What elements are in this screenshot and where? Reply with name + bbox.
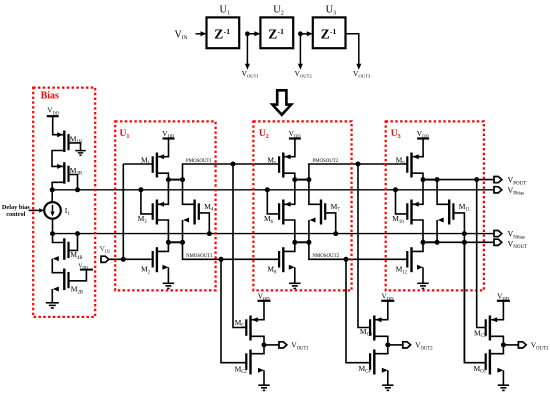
wire MC3 drain to output node	[374, 336, 388, 345]
U1 dashed box	[115, 121, 215, 290]
node dot P left (stage 9)	[421, 177, 426, 182]
node dot buffer3 P tap	[474, 177, 479, 182]
transistor M12 gate bar	[406, 251, 408, 268]
node dot M10 gate on PBias	[393, 187, 398, 192]
node dot M4 gate on NBias	[207, 231, 212, 236]
wire VIN arrow into U1	[196, 33, 203, 35]
wire M2B gate to VDD	[69, 270, 87, 281]
transistor M9 gate bar	[406, 156, 408, 173]
node dot P right (stage 5)	[306, 177, 311, 182]
wire arrow into U2	[247, 33, 256, 35]
wire M6 gate to PBias rail	[267, 190, 279, 214]
power VDD bar (M2B gate)	[80, 269, 93, 271]
wire M12 source to ground	[417, 265, 423, 270]
transistor MC2 channel	[249, 350, 251, 375]
port symbol VOUT2	[403, 342, 411, 348]
node dot M3 gate on PBias	[138, 187, 143, 192]
node dot M7 gate on NBias	[333, 231, 338, 236]
transistor M4 gate bar	[198, 203, 200, 220]
transistor M3B channel	[63, 162, 65, 184]
wire node to M6 source	[284, 180, 295, 205]
power VDD bar (M1)	[163, 137, 175, 139]
wire node to M3 source	[158, 180, 169, 205]
wire M3 gate to PBias rail	[141, 190, 153, 214]
wire MC1 drain to output node	[251, 336, 265, 345]
wire buffer VOUT1 N gate vertical	[221, 259, 246, 362]
ground (buffer VOUT3)	[498, 384, 509, 386]
power VDD bar (bias)	[47, 115, 59, 117]
wire M11 source to lower node	[438, 218, 444, 223]
port symbol VOUT3	[518, 342, 526, 348]
svg-text:PMOSOUT1: PMOSOUT1	[186, 159, 212, 164]
port symbol VNbias	[494, 231, 502, 237]
wire M10 drain to lower node	[412, 220, 424, 242]
ground (buffer VOUT2)	[382, 384, 393, 386]
wire VOUT2 drop	[299, 36, 301, 66]
transistor M2 channel	[156, 247, 158, 272]
node segment PMOS drain (stage 5)	[295, 179, 309, 181]
wire M4 source to lower node	[183, 218, 189, 223]
wire buffer VOUT2 P gate vertical	[358, 164, 370, 328]
hollow arrow (block diagram to schematic)	[272, 90, 291, 115]
wire M1 gate lead	[123, 163, 152, 165]
output node dot (VOUT2)	[385, 342, 390, 347]
wire VDD to MC3 source	[376, 301, 388, 320]
transistor M7 gate bar	[324, 203, 326, 220]
transistor MC4 channel	[373, 350, 375, 375]
wire MC5 drain to output node	[490, 336, 504, 345]
Bias dashed box	[33, 88, 95, 317]
wire MC4 source to ground	[382, 368, 388, 373]
port symbol VOUT1	[279, 342, 287, 348]
svg-text:Bias: Bias	[41, 91, 59, 102]
node dot NMOSOUT2 buffer tap	[344, 257, 349, 262]
output node dot (VOUT1)	[262, 342, 267, 347]
wire M4 gate to NBias rail	[199, 213, 210, 234]
ground (M1B gate)	[75, 150, 86, 152]
wire M11 gate to NBias rail and buffer tap vertical	[453, 213, 464, 363]
transistor M11 channel	[448, 200, 450, 225]
node dot N right (stage 1)	[180, 240, 185, 245]
transistor M11 gate bar	[452, 203, 454, 220]
wire PMOSOUT1 rail	[183, 164, 280, 180]
wire U3 N-node to VNOUT port	[437, 241, 494, 243]
power VDD bar (M5)	[289, 137, 301, 139]
svg-text:NMOSOUT1: NMOSOUT1	[186, 254, 213, 259]
wire M7 gate to NBias rail	[325, 213, 336, 234]
wire MC6 source to ground	[497, 368, 503, 373]
wire VDD to M5 source	[285, 139, 295, 157]
transistor M2B channel	[63, 269, 65, 291]
node dot NBias left end	[50, 231, 55, 236]
transistor M5 gate bar	[278, 156, 280, 173]
wire M1 drain to node	[157, 173, 169, 179]
wire MC4 drain to output node	[374, 345, 388, 354]
wire M2 drain to lower node	[157, 242, 169, 251]
transistor M1B channel	[63, 131, 65, 153]
node dot N left (stage 1)	[166, 240, 171, 245]
transistor MC1 channel	[249, 316, 251, 341]
wire NMOSOUT1 rail	[183, 242, 280, 259]
wire M2 source to ground	[162, 265, 168, 270]
transistor M5 channel	[282, 153, 284, 178]
wire MC2 source to ground	[258, 368, 264, 373]
port symbol VNOUT	[494, 239, 502, 245]
wire buffer VOUT3 N gate vertical	[464, 242, 485, 362]
ground (M8)	[289, 282, 300, 284]
wire MC2 drain to output node	[251, 345, 265, 354]
current source I1 arrow	[52, 205, 54, 213]
port symbol VPbias	[494, 187, 502, 193]
ground (bias)	[46, 302, 59, 304]
wire M3B drain down to PBias node	[52, 182, 64, 202]
wire VDD to MC5 source	[491, 301, 503, 320]
node segment NMOS drain (stage 5)	[295, 241, 309, 243]
block U1 (Z^-1)	[207, 17, 240, 48]
transistor MC3 gate bar	[369, 319, 371, 336]
port symbol VIN	[101, 256, 109, 262]
wire M9 drain to node	[412, 173, 424, 179]
wire M8 source to ground	[289, 265, 295, 270]
junction artifact dot on PBias	[122, 188, 125, 191]
transistor M3 channel	[156, 200, 158, 225]
wire VNbias rail (NBias net)	[53, 233, 495, 235]
wire buffer VOUT3 P gate vertical	[477, 180, 486, 328]
wire M3B gate to PBias rail	[69, 175, 78, 190]
node dot PMOSOUT1 buffer tap	[231, 162, 236, 167]
wire U3 P-node to VPOUT port	[437, 179, 494, 181]
wire M10 gate to PBias rail	[396, 190, 408, 214]
transistor M3 gate bar	[152, 203, 154, 220]
wire M4B source to M2B drain	[53, 256, 59, 261]
node dot N right (stage 5)	[306, 240, 311, 245]
node dot P left (stage 1)	[166, 177, 171, 182]
transistor M6 channel	[282, 200, 284, 225]
node dot PBias left end	[50, 187, 55, 192]
wire M6 drain to lower node	[283, 220, 295, 242]
node dot NMOSOUT1 buffer tap	[219, 257, 224, 262]
transistor M2 gate bar	[152, 251, 154, 268]
wire output node to port (VOUT2)	[388, 344, 403, 346]
svg-text:NMOSOUT2: NMOSOUT2	[312, 254, 339, 259]
wire I1 to NBias node	[52, 219, 54, 234]
wire node to M11 drain	[437, 180, 449, 205]
wire arrow into U3	[300, 33, 308, 35]
node segment NMOS drain (stage 1)	[168, 241, 182, 243]
transistor MC5 channel	[489, 316, 491, 341]
transistor M10 gate bar	[406, 203, 408, 220]
transistor M7 channel	[320, 200, 322, 225]
transistor M10 channel	[410, 200, 412, 225]
node dot P right (stage 1)	[180, 177, 185, 182]
wire delay control arrow	[29, 209, 41, 211]
transistor M4B gate bar	[67, 242, 69, 258]
power VDD bar (buffer VOUT3)	[497, 300, 510, 302]
transistor M8 gate bar	[278, 251, 280, 268]
svg-text:control: control	[6, 211, 25, 218]
node dot after U1	[245, 31, 250, 36]
port symbol VPOUT	[494, 177, 502, 183]
transistor MC6 gate bar	[485, 353, 487, 370]
node dot after U2	[298, 31, 303, 36]
node dot M11 gate on NBias	[462, 231, 467, 236]
transistor M9 channel	[410, 153, 412, 178]
wire VPbias rail (PBias net)	[52, 189, 494, 191]
wire M7 source to lower node	[310, 218, 316, 223]
wire NBias node down to M4B drain	[53, 234, 65, 243]
transistor MC2 gate bar	[245, 353, 247, 370]
transistor M1 gate bar	[152, 156, 154, 173]
node dot M4B gate on NBias	[75, 231, 80, 236]
svg-text:Delay bias: Delay bias	[2, 204, 30, 211]
transistor M6 gate bar	[278, 203, 280, 220]
transistor M4 channel	[193, 200, 195, 225]
wire VDD to MC1 source	[252, 301, 264, 320]
wire NMOSOUT2 rail	[309, 242, 408, 259]
wire U1 input vertical	[122, 164, 124, 259]
wire buffer VOUT1 P gate vertical	[233, 164, 246, 328]
node dot N left (stage 5)	[292, 240, 297, 245]
wire output node to port (VOUT3)	[503, 344, 518, 346]
node dot buffer3 tap on VNOUT rail	[462, 240, 467, 245]
transistor M3B gate bar	[67, 166, 69, 182]
node segment PMOS drain (stage 9)	[423, 179, 437, 181]
wire M1B gate to ground	[69, 143, 81, 151]
transistor M1B gate bar	[67, 134, 69, 150]
transistor MC5 gate bar	[485, 319, 487, 336]
wire VDD to M9 source	[413, 139, 423, 157]
wire M5 drain to node	[283, 173, 295, 179]
wire VOUT1 drop	[246, 36, 248, 66]
wire VDD to M1 source	[158, 139, 168, 157]
wire M4B gate to NBias rail	[69, 234, 78, 251]
wire M1B drain to M3B source	[52, 151, 64, 167]
svg-text:PMOSOUT2: PMOSOUT2	[312, 159, 338, 164]
wire node to M4 drain	[183, 180, 195, 205]
transistor MC1 gate bar	[245, 319, 247, 336]
wire node to M7 drain	[309, 180, 321, 205]
block U2 (Z^-1)	[260, 17, 293, 48]
wire PMOSOUT2 rail	[309, 164, 408, 180]
node dot M3B gate on PBias	[75, 187, 80, 192]
wire buffer VOUT2 N gate vertical	[346, 259, 370, 362]
transistor MC6 channel	[489, 350, 491, 375]
wire VDD to M1B source	[53, 116, 64, 135]
transistor M1 channel	[156, 153, 158, 178]
node segment PMOS drain (stage 1)	[168, 179, 182, 181]
wire M12 drain to lower node	[412, 242, 424, 251]
transistor M8 channel	[282, 247, 284, 272]
wire MC6 drain to output node	[490, 345, 504, 354]
wire M2B source to ground	[53, 287, 59, 292]
U2 dashed box	[253, 121, 351, 290]
current source I1 circle	[44, 202, 61, 219]
block U3 (Z^-1)	[313, 17, 346, 48]
wire M8 drain to lower node	[283, 242, 295, 251]
node dot N right (stage 9)	[435, 240, 440, 245]
node dot M6 gate on PBias	[265, 187, 270, 192]
transistor MC4 gate bar	[369, 353, 371, 370]
ground (M12)	[417, 282, 428, 284]
U3 dashed box	[386, 121, 484, 290]
node segment NMOS drain (stage 9)	[423, 241, 437, 243]
ground (M2)	[163, 282, 174, 284]
node dot P right (stage 9)	[435, 177, 440, 182]
transistor M2B gate bar	[67, 272, 69, 288]
output node dot (VOUT3)	[501, 342, 506, 347]
wire M3 drain to lower node	[157, 220, 169, 242]
wire VIN to U1 input	[109, 258, 152, 260]
node dot P left (stage 5)	[292, 177, 297, 182]
transistor MC3 channel	[373, 316, 375, 341]
wire U3 output to VOUT3	[346, 34, 359, 66]
node dot PMOSOUT2 buffer tap	[356, 162, 361, 167]
transistor M12 channel	[410, 247, 412, 272]
transistor M4B channel	[63, 238, 65, 259]
power VDD bar (buffer VOUT2)	[381, 300, 394, 302]
wire node to M10 source	[412, 180, 423, 205]
ground (buffer VOUT1)	[258, 384, 269, 386]
node dot N left (stage 9)	[421, 240, 426, 245]
wire output node to port (VOUT1)	[264, 344, 279, 346]
node dot VIN vertical	[121, 257, 126, 262]
power VDD bar (buffer VOUT1)	[258, 300, 271, 302]
power VDD bar (M9)	[417, 137, 429, 139]
